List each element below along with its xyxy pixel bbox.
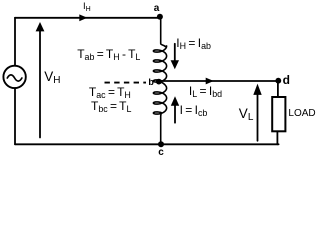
node b junction dot xyxy=(156,79,162,85)
label IH = Iab xyxy=(176,37,211,49)
label Tac = TH xyxy=(89,86,131,98)
node c junction dot xyxy=(158,141,164,147)
ac source sine symbol xyxy=(7,75,22,81)
label Tbc = TL xyxy=(91,100,131,112)
wire: node d down to load xyxy=(277,81,279,97)
wire: load bottom to bottom wire xyxy=(276,132,278,145)
label IH top xyxy=(83,2,91,12)
winding b-c of autotransformer xyxy=(153,82,166,145)
arrow VH (voltage across source) xyxy=(39,30,41,138)
load resistor box xyxy=(272,97,285,131)
wire: source down to bottom wire xyxy=(14,88,16,144)
arrow I=Icb (current up through winding c-b) xyxy=(174,106,176,123)
ac source V1 xyxy=(3,66,25,88)
label IL = Ibd xyxy=(189,85,222,97)
wire: top horizontal from source to node a xyxy=(15,17,160,19)
winding a-b of autotransformer xyxy=(153,17,166,82)
label I = Icb xyxy=(180,104,208,116)
label node a xyxy=(154,4,160,14)
wire: left vertical from top wire down to source xyxy=(14,18,16,66)
label node d xyxy=(283,74,290,86)
label node c xyxy=(158,148,164,158)
arrow IH on top wire xyxy=(79,14,87,21)
node d junction dot xyxy=(275,78,281,84)
label Tab = TH - TL xyxy=(77,48,140,60)
wire: bottom horizontal from source to load xyxy=(15,143,279,145)
label VH xyxy=(44,70,60,84)
label node b xyxy=(148,78,154,87)
wire: node b to node d horizontal xyxy=(159,80,278,82)
label VL xyxy=(239,107,254,121)
arrow VL (voltage across load) xyxy=(257,93,259,141)
label LOAD xyxy=(288,109,315,119)
arrow IH=Iab (current down through winding a-b) xyxy=(174,44,176,61)
arrow IL=Ibd on wire b-d xyxy=(206,78,214,85)
dashed leader to node b xyxy=(105,82,147,84)
node a junction dot xyxy=(157,14,163,20)
